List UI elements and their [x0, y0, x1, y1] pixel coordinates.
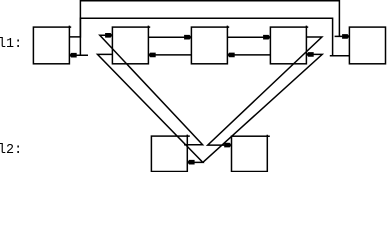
node box B3 (list l1, node 3) — [191, 26, 229, 64]
wire B2 to box A (diagonal pointer P2) — [98, 54, 203, 162]
wire B1 to B5 (forward pointer routed over top line y=1) — [69, 1, 342, 37]
node box A (list l2, node 1) — [151, 135, 189, 172]
wire B5 to B1 (back pointer routed over line y=18.2) — [70, 18, 349, 56]
wire arrow B4 to B3 (prev pointer) — [234, 54, 270, 56]
wire B4 to box B (diagonal pointer Q2) — [208, 37, 322, 145]
arrowhead into B3 (B2 next) — [184, 35, 191, 40]
node box B1 (list l1, node 1) — [33, 26, 71, 64]
label l1: — [0, 38, 22, 51]
node box B2 (list l1, node 2) — [112, 26, 150, 64]
arrowhead into B3 (B4 prev) — [227, 53, 234, 58]
node box B4 (list l1, node 4) — [270, 26, 308, 64]
wire arrow B3 to B2 (prev pointer) — [155, 54, 191, 56]
arrowhead into B5 (B1 forward pointer) — [342, 34, 349, 39]
arrowhead into B2 (from box A, P1) — [105, 33, 112, 38]
arrowhead into B4 (Q1) — [306, 52, 313, 57]
arrowhead into box B (Q2) — [224, 143, 231, 148]
wire arrow B2 to B3 (next pointer) — [148, 36, 184, 38]
node box B5 (list l1, node 5) — [349, 27, 385, 64]
wire arrow B3 to B4 (next pointer) — [227, 36, 263, 38]
arrowhead into box A (P2) — [187, 160, 194, 165]
arrowhead into B2 (B3 prev) — [148, 53, 155, 58]
arrowhead into B4 (B3 next) — [263, 35, 270, 40]
wire box A to B2 (diagonal pointer P1) — [100, 35, 203, 144]
label l2: — [0, 144, 22, 157]
arrowhead into B1 (B5 back pointer) — [69, 53, 76, 58]
wire to B4 (diagonal pointer Q1 from box A junction) — [203, 54, 322, 162]
node box B (list l2, node 2) — [232, 135, 270, 172]
